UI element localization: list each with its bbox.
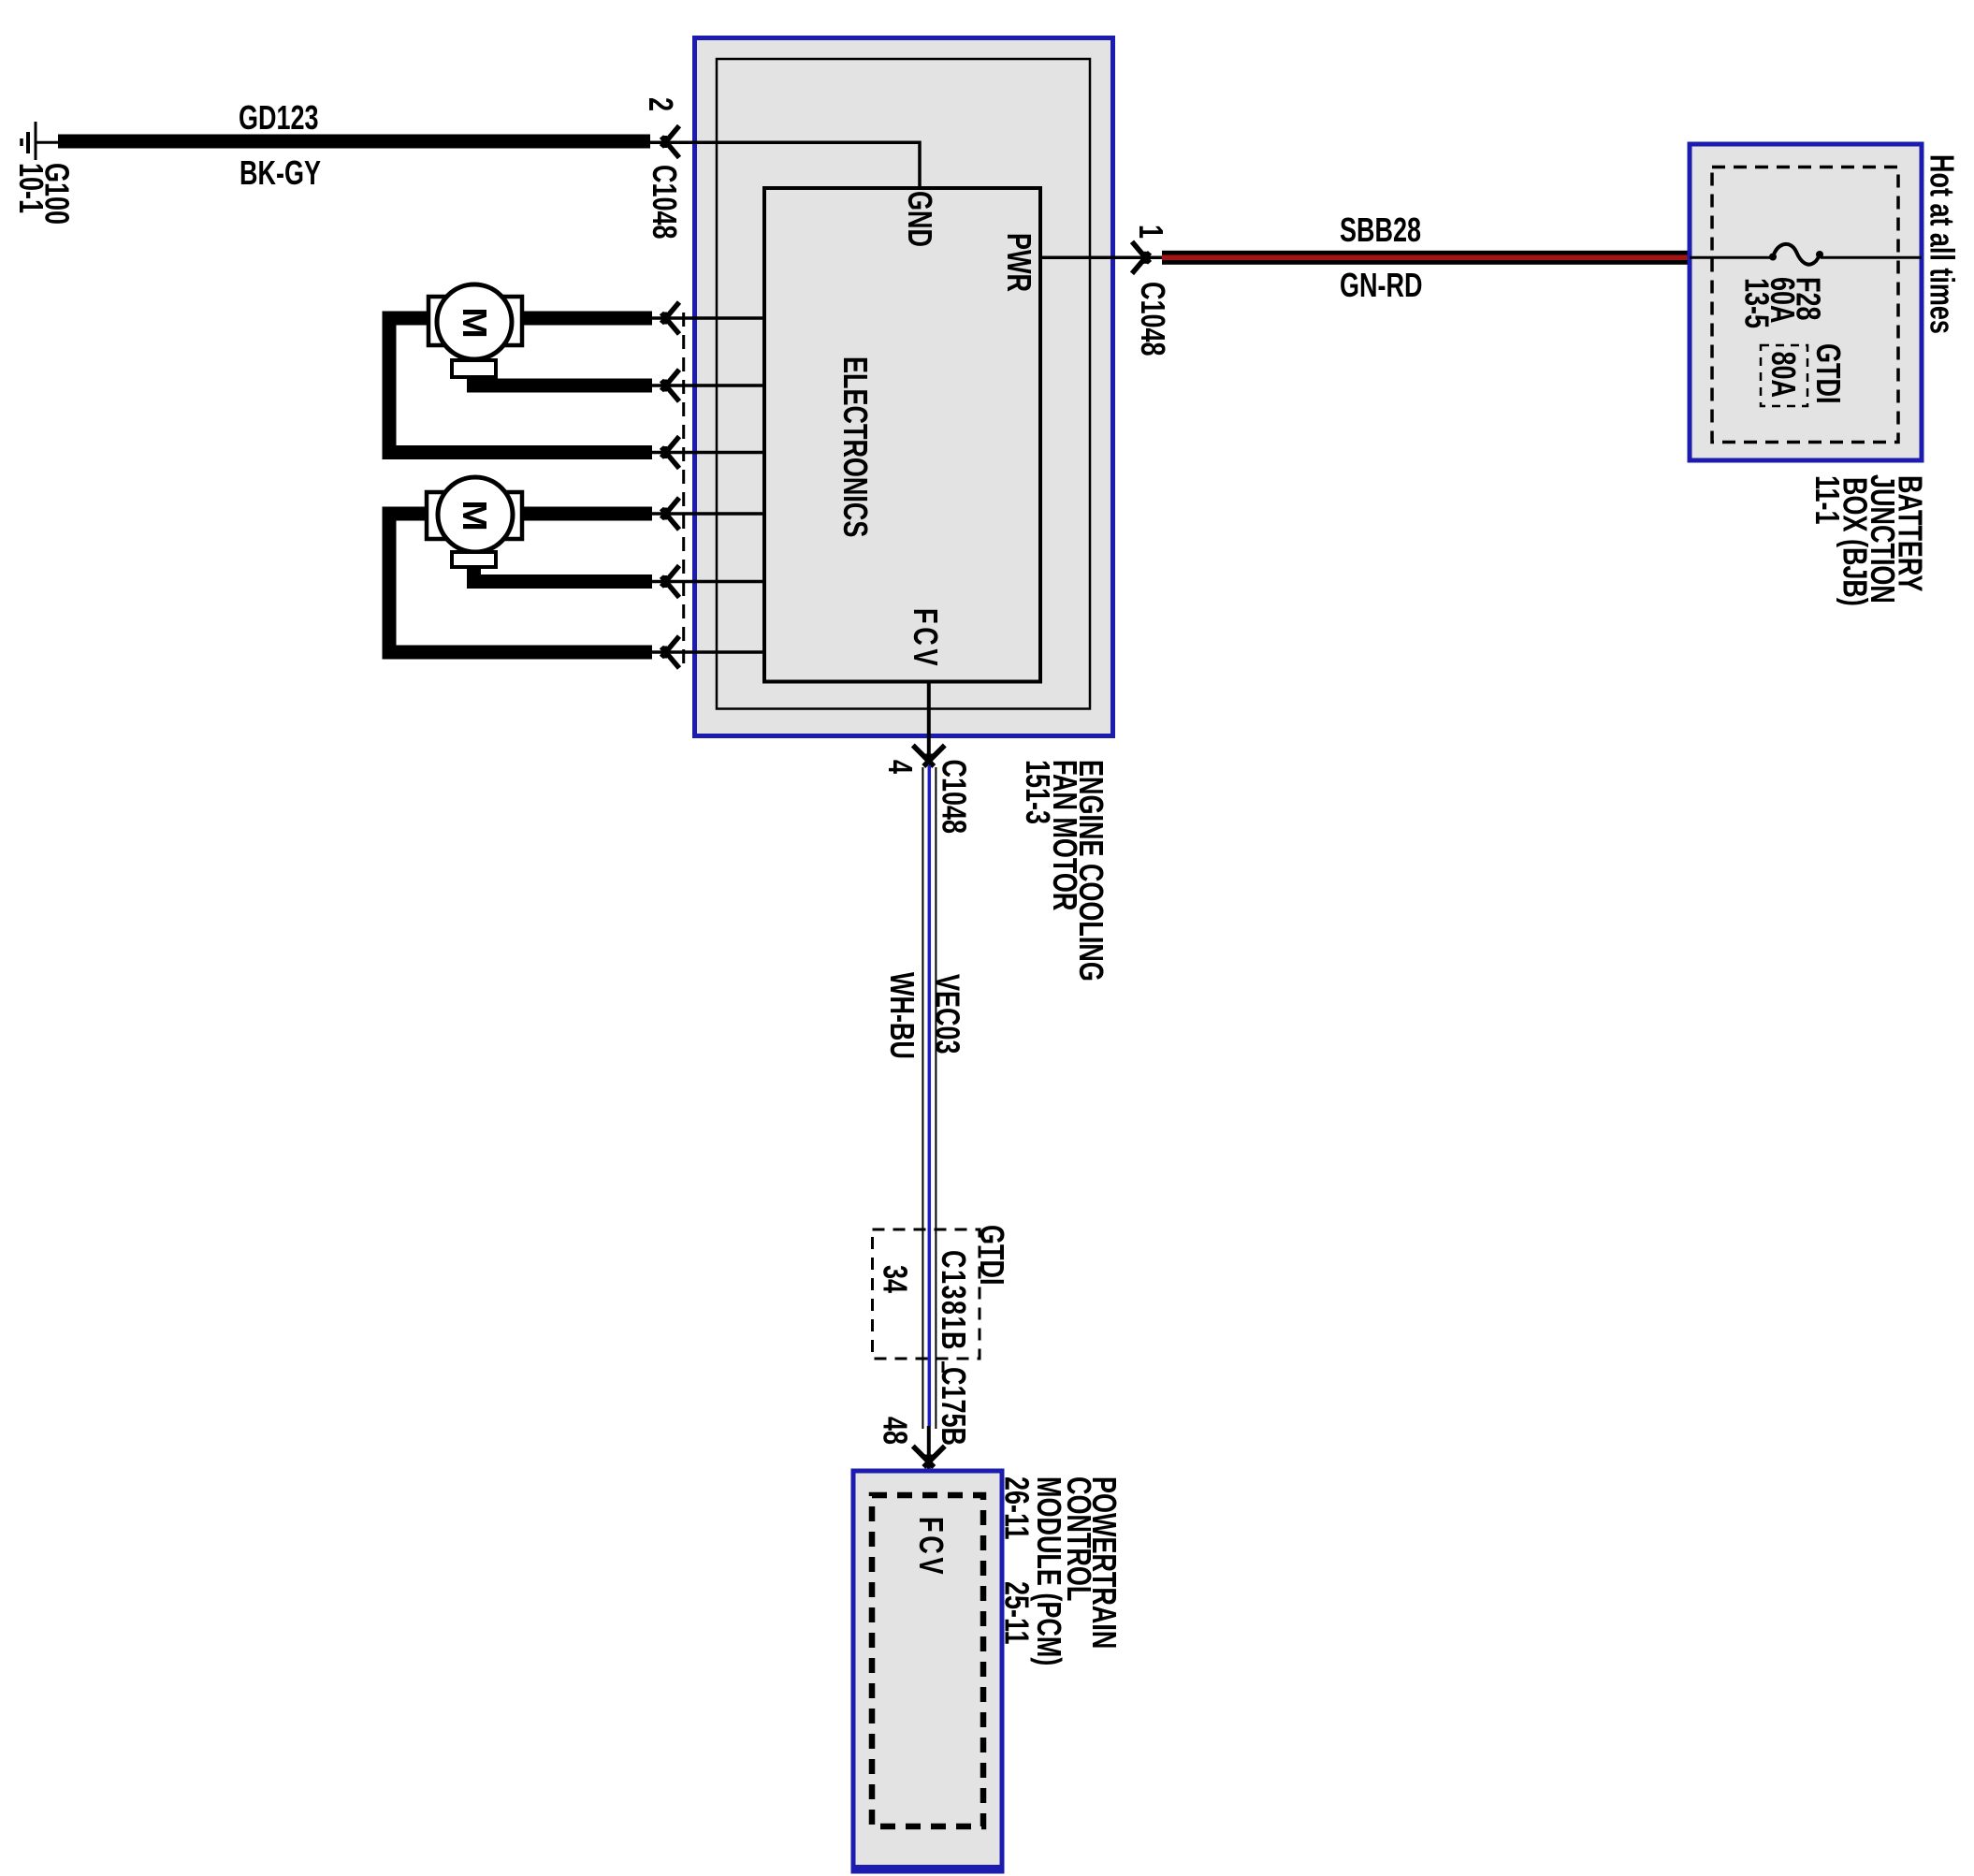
fan motor 2 terminal [452, 552, 496, 567]
svg-text:FCV: FCV [907, 608, 945, 669]
wire motor1 loop (row 3) [389, 318, 652, 453]
connector C1048 motor pin row 2 (wire lead and arrow) [652, 384, 764, 387]
svg-text:VEC03: VEC03 [928, 974, 966, 1054]
fuse F28 output line [1821, 256, 1922, 259]
wire PWR (electronics to pin 1) [1040, 256, 1162, 260]
battery junction box (BJB) [1690, 144, 1922, 460]
svg-text:ELECTRONICS: ELECTRONICS [836, 356, 875, 537]
fan motor 1 terminal [452, 360, 496, 377]
svg-text:13-5: 13-5 [1738, 278, 1777, 328]
wire GND (pin 2 to electronics) [649, 142, 920, 188]
PCM dashed inner box [872, 1495, 983, 1826]
svg-text:WH-BU: WH-BU [883, 972, 922, 1059]
svg-text:11-1: 11-1 [1808, 475, 1847, 525]
inline connector mate tick [942, 1361, 945, 1373]
wire VEC03 WH-BU (harness) [922, 765, 936, 1429]
fan motor 2 housing [427, 492, 522, 539]
svg-text:FCV: FCV [912, 1517, 951, 1578]
connector C1048 pin 1 arrow [1132, 241, 1150, 273]
fan module inner box [717, 59, 1090, 709]
connector C1048 dashed face line [682, 313, 685, 664]
wire GD123 BK-GY [58, 135, 650, 149]
svg-text:C1048: C1048 [1134, 282, 1172, 356]
connector pin 48 arrow [913, 1447, 945, 1468]
fuse F28 element [1773, 244, 1821, 265]
connector C1048 pin 2 [661, 126, 679, 158]
svg-text:C1381B: C1381B [935, 1250, 973, 1351]
inline connector dashed box (pin 34) [873, 1229, 980, 1359]
fan motor 2 circle M [438, 477, 513, 552]
fan motor 1 housing [428, 297, 522, 345]
svg-text:1: 1 [1132, 225, 1170, 239]
svg-text:GN-RD: GN-RD [1340, 266, 1422, 304]
svg-text:4: 4 [881, 760, 920, 774]
dashed box 80A [1761, 345, 1807, 406]
svg-text:GD123: GD123 [239, 98, 318, 137]
BJB dashed inner box [1712, 167, 1898, 443]
electronics box [764, 188, 1040, 682]
connector C1048 pin 4 arrow [913, 746, 945, 767]
wire motor2 loop (row 6) [389, 514, 652, 652]
svg-text:PWR: PWR [1000, 233, 1038, 292]
svg-text:Hot at all times: Hot at all times [1923, 154, 1962, 334]
wire FCV (electronics to pin 4) [927, 682, 931, 765]
svg-text:SBB28: SBB28 [1340, 211, 1421, 249]
svg-text:M: M [456, 307, 494, 339]
connector C1048 motor pin row 3 (wire lead and arrow) [652, 451, 764, 455]
connector C1048 motor pin row 5 (wire lead and arrow) [652, 580, 764, 584]
svg-text:GND: GND [901, 191, 939, 247]
svg-text:GTDI: GTDI [1809, 343, 1848, 403]
wire motor1 terminal (row 2) [474, 377, 653, 385]
svg-text:25-11: 25-11 [998, 1581, 1037, 1645]
svg-text:BK-GY: BK-GY [239, 153, 321, 192]
svg-text:48: 48 [877, 1417, 915, 1445]
connector C1048 motor pin row 1 (wire lead and arrow) [652, 316, 764, 320]
fan motor 1 circle M [437, 284, 512, 359]
fuse F28 feed line [1690, 256, 1773, 259]
svg-text:C1048: C1048 [646, 165, 684, 240]
wire FCV to PCM pin 48 [927, 1426, 931, 1495]
svg-text:C175B: C175B [935, 1367, 973, 1446]
svg-text:C1048: C1048 [935, 760, 973, 835]
ground G100 [22, 122, 59, 160]
connector C1048 motor pin row 6 (wire lead and arrow) [652, 650, 764, 654]
svg-text:80A: 80A [1764, 352, 1803, 399]
svg-text:2: 2 [642, 97, 680, 111]
powertrain control module (PCM) box [853, 1471, 1002, 1871]
svg-text:34: 34 [877, 1265, 915, 1293]
wire motor1 feed (row 1) [522, 312, 652, 326]
wire SBB28 GN-RD [1162, 251, 1690, 265]
svg-text:M: M [456, 500, 494, 531]
wire motor2 feed (row 4) [522, 507, 652, 521]
engine cooling fan motor module box [695, 38, 1113, 736]
wire motor2 terminal (row 5) [474, 567, 653, 582]
svg-text:26-11: 26-11 [998, 1476, 1037, 1540]
connector C1048 motor pin row 4 (wire lead and arrow) [652, 512, 764, 516]
svg-text:10-1: 10-1 [12, 163, 51, 213]
svg-text:GTDI: GTDI [973, 1225, 1011, 1285]
svg-text:151-3: 151-3 [1019, 760, 1057, 824]
